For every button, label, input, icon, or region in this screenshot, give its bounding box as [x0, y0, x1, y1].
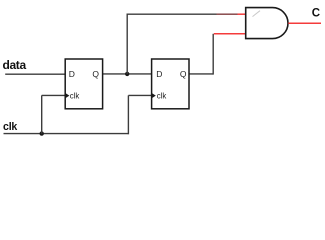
wire top horizontal black segment [127, 13, 217, 15]
flip-flop FF2 clock triangle [152, 93, 156, 98]
flip-flop FF2 body [152, 59, 189, 109]
flip-flop FF1 clock triangle [65, 93, 69, 98]
wire clk branch 2 horizontal to FF2 [128, 94, 151, 96]
wire clk branch 2 vertical [127, 95, 129, 134]
wire Q1 to D2 [103, 73, 152, 75]
svg-text:clk: clk [157, 91, 167, 100]
wire Q2 output [189, 73, 213, 75]
wire vertical junction to top [126, 14, 128, 74]
wire top horizontal blended segment [217, 13, 238, 15]
wire AND output red [288, 22, 321, 24]
svg-text:Q: Q [180, 69, 187, 79]
svg-text:D: D [156, 69, 162, 79]
AND gate [246, 8, 288, 39]
svg-text:clk: clk [3, 121, 17, 133]
svg-text:data: data [3, 58, 27, 72]
svg-text:D: D [69, 69, 75, 79]
junction dot on Q1 wire [125, 72, 129, 76]
wire clk bus horizontal [4, 133, 129, 135]
svg-text:clk: clk [70, 91, 80, 100]
wire red to AND input 2 [214, 33, 246, 35]
wire vertical Q2 up [212, 34, 214, 75]
wire top horizontal red segment to AND input 1 [238, 13, 246, 15]
svg-text:Q: Q [92, 69, 99, 79]
wire clk branch 1 horizontal to FF1 [42, 94, 65, 96]
svg-text:C: C [312, 8, 320, 20]
flip-flop FF1 body [65, 59, 102, 109]
wire clk branch 1 vertical [41, 95, 43, 133]
wire data input [5, 73, 65, 75]
junction dot on clk bus [40, 131, 44, 135]
